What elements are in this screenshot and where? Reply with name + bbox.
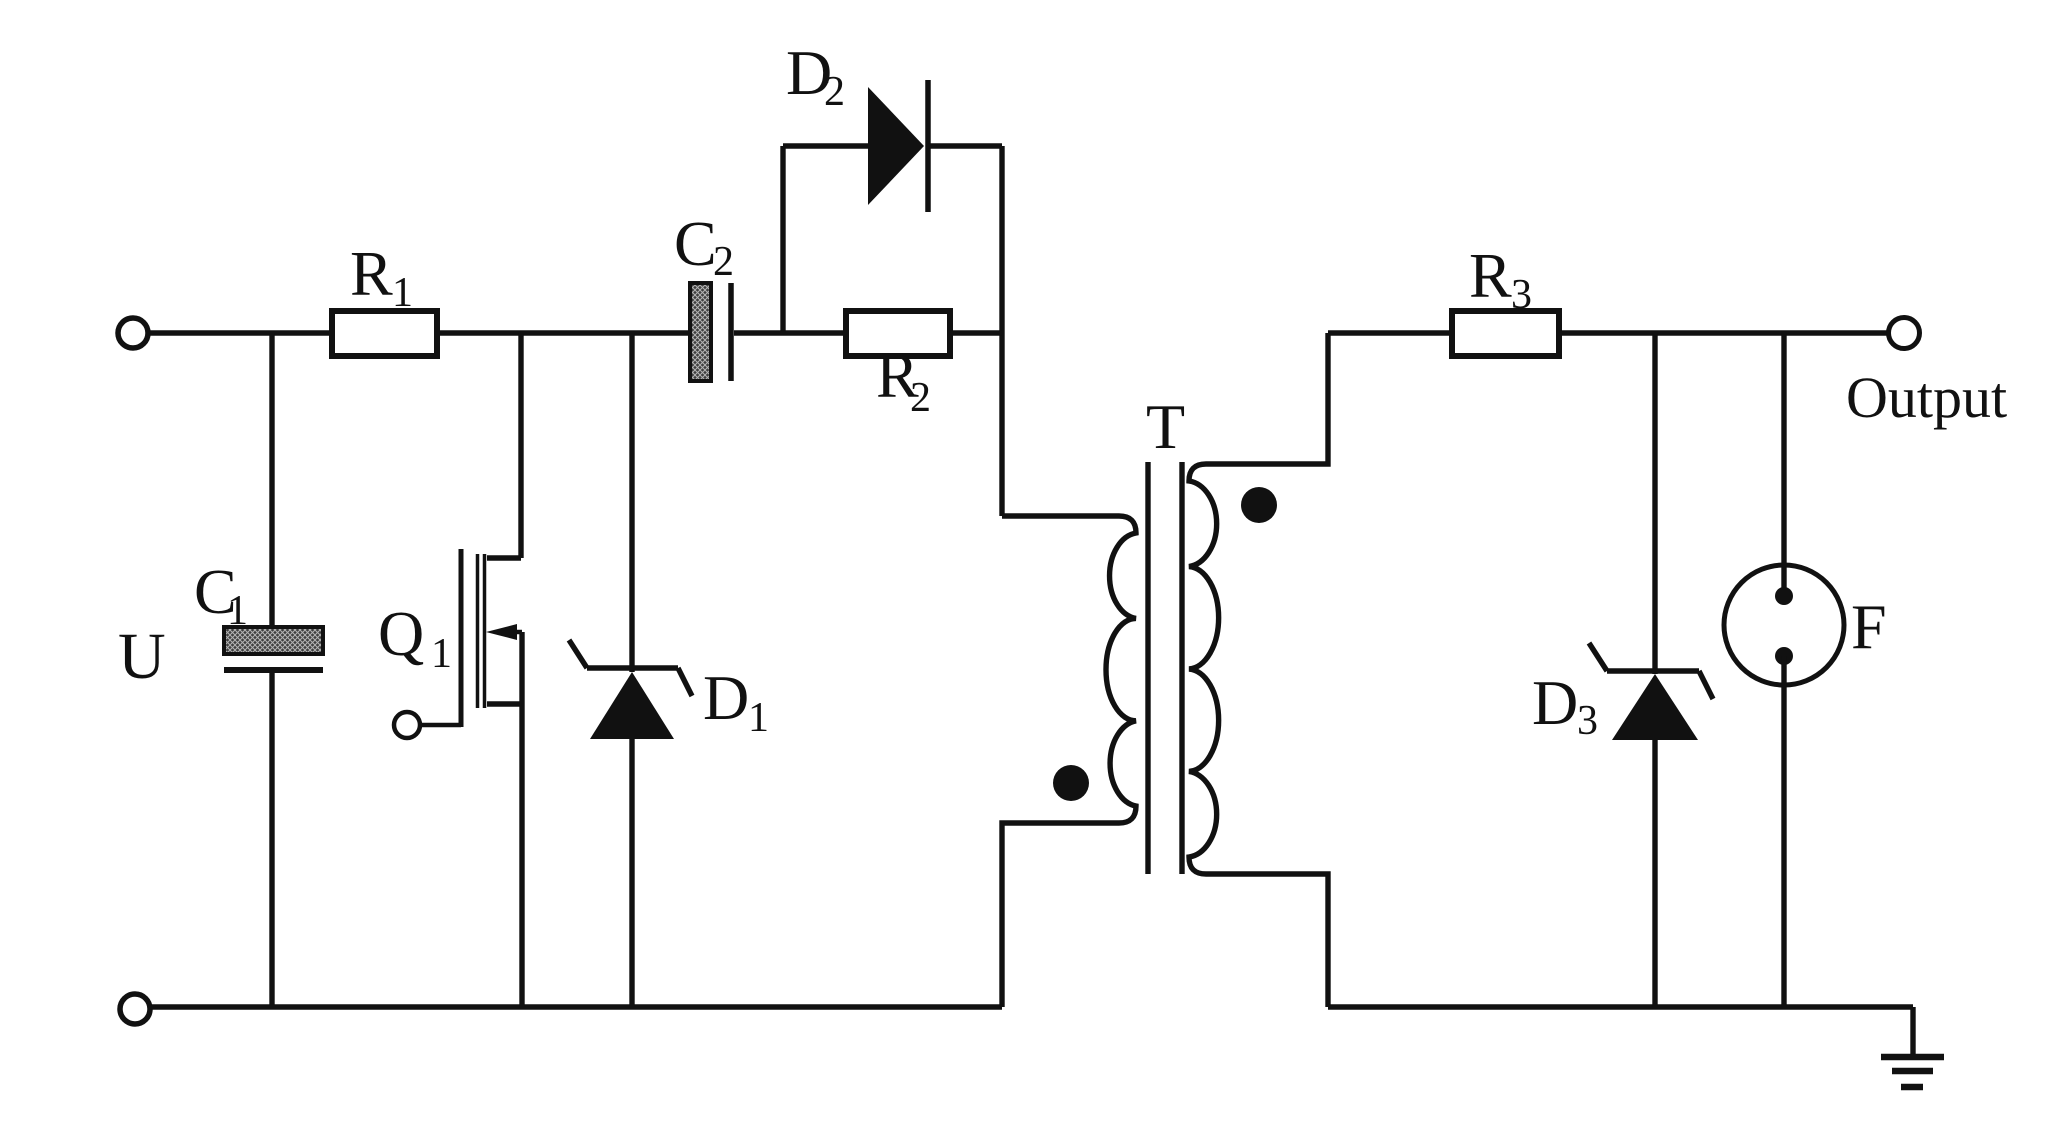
svg-text:2: 2 (824, 69, 845, 115)
svg-text:R: R (1469, 240, 1512, 311)
svg-text:Output: Output (1846, 365, 2007, 430)
svg-text:D: D (1532, 667, 1578, 738)
svg-text:T: T (1146, 391, 1185, 462)
svg-text:3: 3 (1511, 272, 1532, 318)
svg-text:Q: Q (378, 598, 424, 669)
svg-text:2: 2 (713, 239, 734, 285)
svg-text:2: 2 (910, 375, 931, 421)
svg-text:U: U (118, 620, 166, 693)
svg-text:3: 3 (1577, 698, 1598, 744)
svg-text:1: 1 (227, 588, 248, 634)
svg-text:F: F (1851, 591, 1887, 662)
svg-text:1: 1 (748, 695, 769, 741)
svg-text:R: R (350, 238, 393, 309)
svg-text:1: 1 (431, 631, 452, 677)
svg-text:C: C (674, 208, 717, 279)
svg-text:1: 1 (392, 270, 413, 316)
svg-text:D: D (703, 662, 749, 733)
